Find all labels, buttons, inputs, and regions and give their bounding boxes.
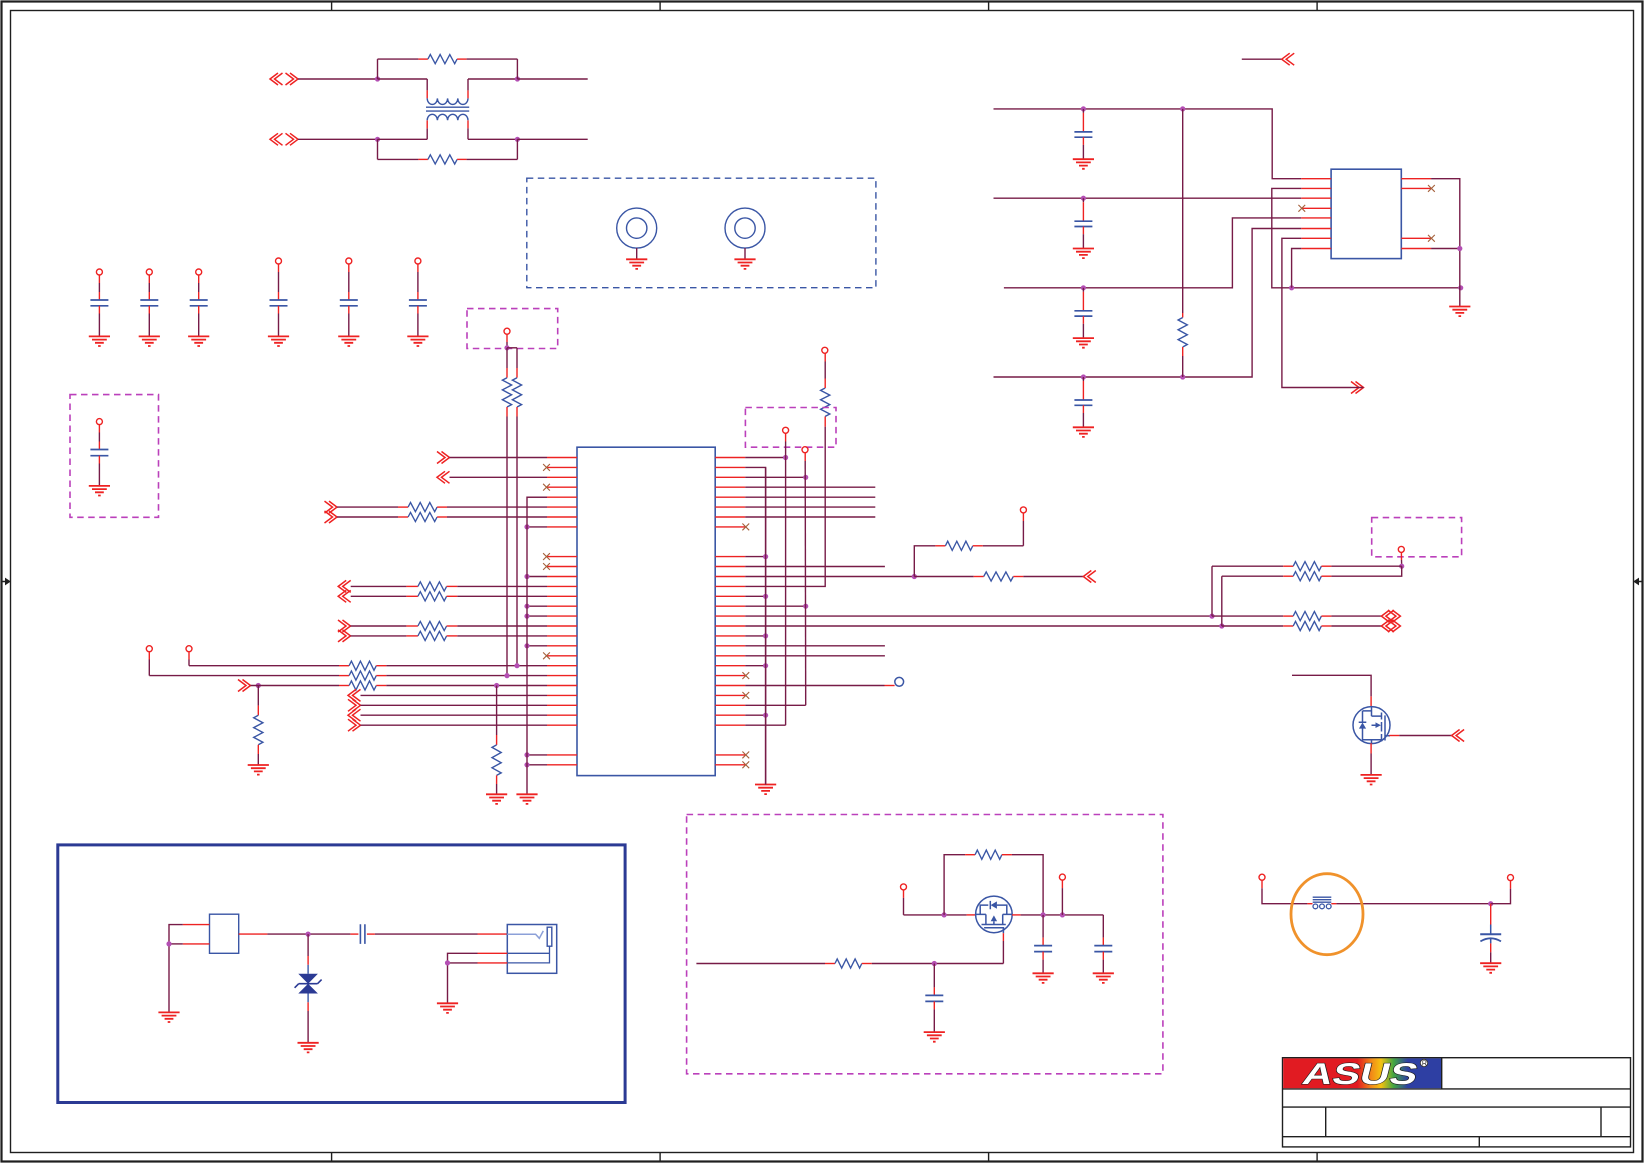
capacitor C5 decoupling: [346, 258, 352, 264]
wire jack sleeve: [478, 952, 508, 954]
resistor R10 gate-source: [944, 855, 965, 915]
wire gate down: [1002, 933, 1004, 941]
port bidirectional: [1381, 610, 1394, 622]
pin NC: [547, 655, 577, 657]
capacitor C10 rail decoupling: [1082, 288, 1084, 292]
pin wire junction: [715, 714, 745, 716]
ground: [188, 336, 209, 346]
mounting holes dashed box: [527, 178, 876, 288]
wire: [516, 417, 518, 666]
pin wire to power rail: [715, 457, 745, 459]
test point circle: [895, 677, 904, 686]
highlight box audio jack circuit: [58, 845, 625, 1103]
pin wire junction: [547, 615, 577, 617]
series resistor row 13: [338, 580, 351, 592]
port input: [1452, 730, 1465, 742]
wire bus vertical ground side: [765, 467, 767, 784]
junction: [494, 683, 499, 688]
pin wire junction: [715, 476, 745, 478]
pull-up resistor row B: [1222, 575, 1283, 577]
junction: [514, 663, 519, 668]
wire: [467, 120, 469, 128]
ground: [1480, 963, 1501, 973]
junction: [1041, 912, 1046, 917]
pin wire to bus: [715, 724, 745, 726]
power pin: [1059, 874, 1065, 880]
wire pin down: [1292, 249, 1302, 288]
series resistor row 17: [338, 620, 351, 632]
power pin: [802, 447, 808, 453]
pull-up row 22 from power pin: [146, 646, 152, 652]
pin wire junction: [715, 556, 745, 558]
port output: [1351, 382, 1364, 394]
pin wire stub: [715, 566, 745, 568]
port row 25: [348, 699, 361, 711]
mounting hole MH1: [617, 208, 657, 248]
port input: [1282, 53, 1295, 65]
junction: [942, 912, 947, 917]
ground: [89, 336, 110, 346]
pin stub: [1301, 237, 1331, 239]
ground: [734, 259, 755, 269]
pin wire stub: [715, 506, 745, 508]
pull-up resistor row A: [1212, 565, 1283, 567]
wire to ground: [1431, 179, 1460, 307]
ground: [626, 259, 647, 269]
row 16 long wire: [715, 615, 745, 617]
pin wire junction: [715, 605, 745, 607]
junction: [1457, 246, 1462, 251]
ferrite bead FB1: [1313, 897, 1332, 909]
pin NC: [1428, 185, 1435, 192]
port row 26: [348, 709, 361, 721]
wire jack ring: [478, 962, 508, 964]
junction: [445, 960, 450, 965]
wire pin1: [183, 924, 210, 926]
pull-up row 21 from power pin: [186, 646, 192, 652]
ground: [1073, 159, 1094, 169]
port row 27: [348, 719, 361, 731]
resistor R1 bypass top: [377, 59, 379, 79]
ground: [924, 1032, 945, 1042]
port P2 bidirectional: [270, 133, 283, 145]
pin wire to pull-up: [715, 585, 745, 587]
pin wire stub: [715, 645, 745, 647]
pin wire junction: [715, 635, 745, 637]
wire: [298, 78, 378, 80]
ground: [248, 765, 269, 775]
pin wire stub: [715, 486, 745, 488]
ground: [1449, 307, 1470, 317]
junction: [515, 76, 520, 81]
wire: [904, 914, 967, 916]
pin stub: [1301, 228, 1331, 230]
pin wire junction: [547, 576, 577, 578]
junction: [932, 961, 937, 966]
pin NC: [547, 466, 577, 468]
power pin: [822, 347, 828, 353]
ground: [298, 1043, 319, 1053]
ground: [486, 794, 507, 804]
wire: [1431, 248, 1460, 250]
junction: [1488, 901, 1493, 906]
ground: [139, 336, 160, 346]
power pin: [1398, 546, 1404, 552]
resistor R8: [821, 388, 830, 416]
junction: [504, 345, 509, 350]
capacitor C4 decoupling: [276, 258, 282, 264]
junction: [375, 137, 380, 142]
wire bus vertical: [804, 453, 806, 461]
pin NC: [1298, 205, 1305, 212]
pin NC: [715, 754, 745, 756]
capacitor C12 polarized: [1490, 904, 1492, 925]
pin stub: [1301, 207, 1331, 209]
dashed option box: [70, 395, 159, 518]
bus wire vertical: [527, 497, 547, 794]
pin NC: [547, 556, 577, 558]
wire: [298, 138, 378, 140]
power pin: [783, 427, 789, 433]
resistor network row 5: [325, 501, 338, 513]
pin wire down bus: [715, 466, 745, 468]
transistor Q1 N-MOSFET: [1353, 707, 1390, 744]
wire pin to lower net: [1272, 188, 1461, 287]
capacitor C14: [1102, 915, 1104, 938]
wire vertical to row 17: [1221, 576, 1223, 626]
resistor R11 input: [696, 963, 825, 965]
dashed box power pins right of IC: [745, 408, 836, 448]
mounting hole MH2: [725, 208, 765, 248]
pin wire to bus: [547, 496, 577, 498]
capacitor C13: [1042, 915, 1044, 938]
junction: [306, 932, 311, 937]
ground: [338, 336, 359, 346]
IC U2 regulator: [1331, 169, 1401, 258]
pin NC: [715, 526, 745, 528]
rail 1 wire: [994, 109, 1302, 179]
dashed box right option: [1372, 518, 1462, 557]
pin wire port input: [437, 452, 450, 464]
junction: [375, 76, 380, 81]
series resistor row 18: [338, 630, 351, 642]
capacitor C11 rail decoupling: [1082, 377, 1084, 381]
row 12 wire with divider resistors: [715, 576, 745, 578]
wire: [1491, 889, 1511, 904]
pin wire junction: [547, 764, 577, 766]
pin wire junction: [715, 595, 745, 597]
wire: [1336, 903, 1490, 905]
series resistor row 14: [338, 590, 351, 602]
port wire top right: [1242, 58, 1282, 60]
pin NC: [1428, 235, 1435, 242]
junction: [1060, 912, 1065, 917]
capacitor C3 decoupling: [196, 269, 202, 275]
title block outline: [1283, 1058, 1631, 1147]
power pin: [1508, 875, 1514, 881]
pin stub: [1301, 178, 1331, 180]
wire: [903, 890, 905, 898]
pin wire to test point: [715, 685, 745, 687]
ground: [89, 486, 110, 496]
pin wire stub: [715, 516, 745, 518]
wire: [378, 138, 428, 140]
dashed box power switch circuit: [687, 815, 1163, 1074]
wire pin2: [183, 943, 210, 945]
capacitor C16 series: [350, 933, 358, 935]
pin NC: [715, 764, 745, 766]
dashed box power option: [467, 309, 558, 349]
ground: [158, 1012, 179, 1022]
wire: [1021, 914, 1104, 916]
wire: [506, 417, 508, 676]
row 23 port and series resistor: [238, 680, 251, 692]
svg-text:R: R: [1422, 1061, 1427, 1068]
junction: [515, 137, 520, 142]
pin wire to bus: [715, 704, 745, 706]
wire: [517, 78, 587, 80]
svg-text:ASUS: ASUS: [1299, 1057, 1421, 1090]
power pin: [1259, 874, 1265, 880]
ground: [1073, 338, 1094, 348]
capacitor C15: [933, 964, 935, 988]
pin wire junction: [547, 526, 577, 528]
wire: [375, 933, 478, 935]
capacitor C9 rail decoupling: [1082, 198, 1084, 202]
ground: [1033, 973, 1054, 983]
pin wire junction: [715, 665, 745, 667]
capacitor C6 decoupling: [415, 258, 421, 264]
ground: [516, 794, 537, 804]
pull-down resistor R6 to ground: [496, 686, 498, 736]
wire: [507, 347, 517, 349]
pin wire junction: [547, 754, 577, 756]
wire: [1400, 552, 1402, 560]
rail 4 wire: [994, 229, 1302, 378]
wire pin to port: [1282, 238, 1351, 387]
row 17 long wire: [715, 625, 745, 627]
junction: [1399, 564, 1404, 569]
pin wire stub: [715, 496, 745, 498]
pin stub: [1301, 248, 1331, 250]
ground: [407, 336, 428, 346]
ground: [437, 1003, 458, 1013]
ground: [755, 785, 776, 795]
wire source to ground: [1370, 743, 1372, 753]
junction: [166, 941, 171, 946]
pin NC: [715, 694, 745, 696]
port row 24: [348, 689, 361, 701]
rail 2 wire: [994, 197, 1302, 199]
wire vertical to row 16: [1211, 566, 1213, 616]
pin NC: [547, 566, 577, 568]
junction: [504, 673, 509, 678]
common-mode choke L1: [427, 98, 468, 104]
TVS diode D1: [307, 934, 309, 956]
wire: [426, 79, 428, 90]
port output: [1083, 571, 1096, 583]
wire: [517, 138, 587, 140]
ground: [1093, 973, 1114, 983]
wire: [506, 334, 508, 342]
capacitor C8 rail decoupling: [1082, 109, 1084, 113]
pin stub: [1301, 197, 1331, 199]
power pin: [901, 884, 907, 890]
pull-up resistor R7 from power pin: [1020, 507, 1026, 513]
wire: [1061, 880, 1063, 888]
rail 3 wire: [1004, 218, 1301, 288]
capacitor C2 decoupling: [146, 269, 152, 275]
pin wire port: [437, 471, 450, 483]
wire: [467, 90, 469, 98]
resistor R9 between rails: [1182, 109, 1184, 313]
pin wire junction: [547, 605, 577, 607]
ground: [1073, 427, 1094, 437]
port bidirectional: [1381, 620, 1394, 632]
resistor R4: [516, 348, 518, 368]
connector J1 jack: [507, 925, 556, 974]
pin NC: [715, 675, 745, 677]
wire gate to port: [1389, 735, 1399, 737]
wire pin3 output: [239, 933, 268, 935]
ground: [1361, 775, 1382, 785]
capacitor C7: [96, 419, 102, 425]
wire drain net: [1292, 675, 1371, 696]
component U3 box: [210, 914, 239, 953]
pin wire junction: [547, 645, 577, 647]
resistor R3: [506, 348, 508, 368]
pull-down resistor R5 to ground: [257, 686, 259, 706]
pin wire stub: [715, 655, 745, 657]
pin stub: [1301, 217, 1331, 219]
ground: [1073, 249, 1094, 259]
wire: [378, 78, 428, 80]
ground: [268, 336, 289, 346]
pin stub: [1301, 187, 1331, 189]
IC U1 main controller: [577, 447, 715, 775]
wire bus vertical: [785, 433, 787, 441]
right pins of U2: [1401, 178, 1431, 180]
port P1 bidirectional: [270, 73, 283, 85]
pin NC: [547, 486, 577, 488]
power pin: [504, 328, 510, 334]
orange highlight circle: [1291, 874, 1363, 955]
wire: [1261, 880, 1263, 888]
resistor network row 6: [325, 511, 338, 523]
capacitor C1 decoupling: [96, 269, 102, 275]
resistor R2 bypass bottom: [377, 139, 379, 159]
transistor Q2 P-MOSFET: [976, 896, 1013, 933]
